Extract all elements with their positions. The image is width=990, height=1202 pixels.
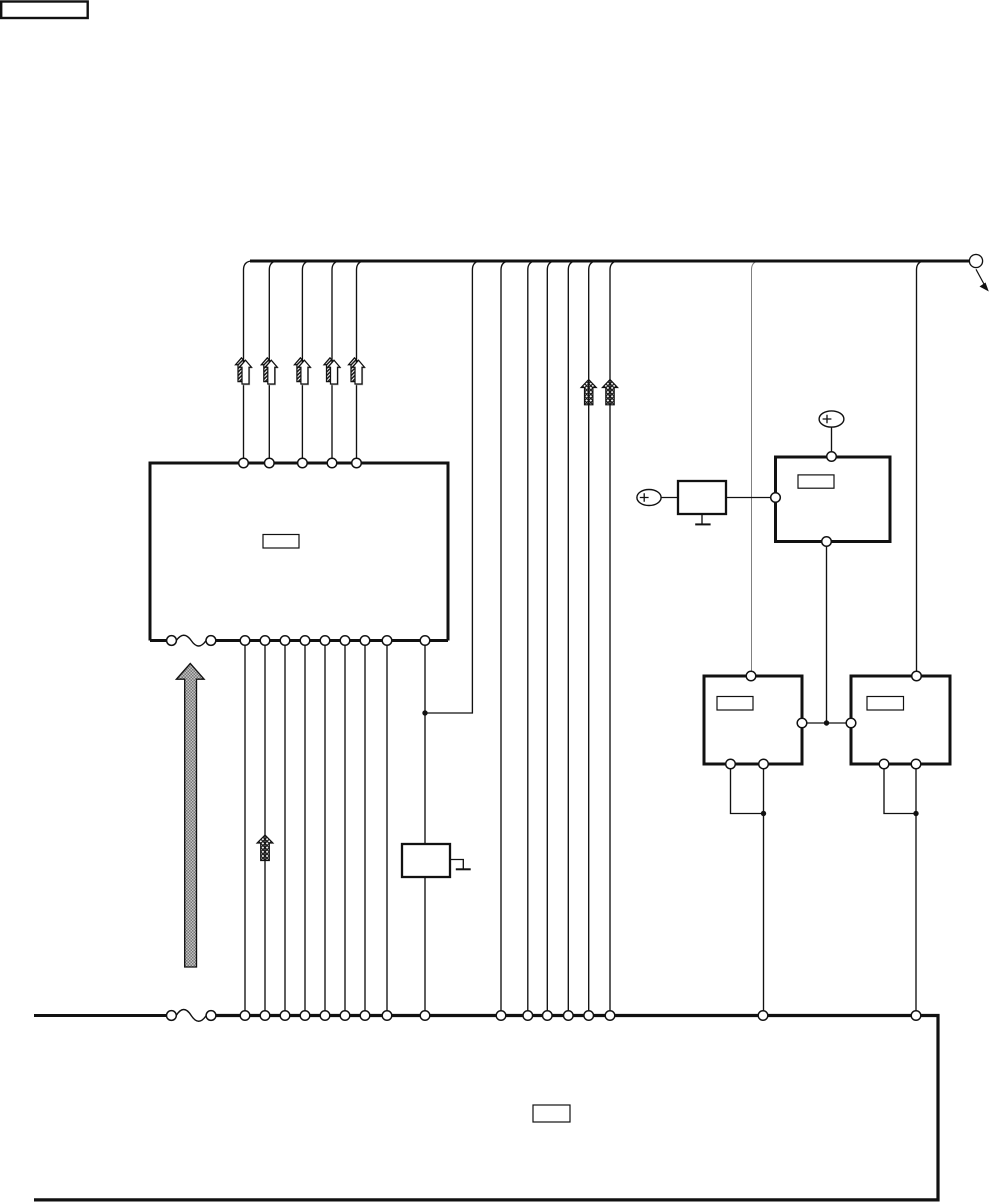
wire P1 to box F [661,497,678,499]
big gray hatched arrow [176,664,204,968]
hatched double arrow on wire A5 [349,358,361,382]
wire drop C3 [547,261,556,1016]
wire B9 (through box D) [424,641,426,1016]
gray wire drop to box G [752,261,761,676]
bus end arrow [976,269,985,285]
ground at box D [450,860,463,869]
big box label rect [263,535,299,549]
box G [704,676,802,764]
small dense arrow on wire C5 [581,380,596,405]
small dense arrow on wire C6 [602,380,617,405]
bottom box label rect [533,1105,570,1122]
wire B5 [324,641,326,1016]
wire B7 [364,641,366,1016]
wire drop to box H [917,261,926,676]
junction A dot [422,710,427,715]
bottom bus left segment [34,1014,167,1017]
box E label rect [798,475,834,488]
wire drop A1 [244,261,253,463]
wire box E to junction B [826,546,828,723]
box E [776,457,891,542]
wire under H step [884,769,916,814]
big box IC left: edges [150,463,448,641]
box H bottom pin 1 [879,759,889,769]
box H top pin [912,671,922,681]
box H label rect [867,697,904,711]
box G label rect [717,697,753,711]
wire B2 [264,641,266,1016]
wire drop A5 [357,261,366,463]
wire drop A2 [269,261,278,463]
hatched double arrow on wire A2 [261,358,273,382]
box H [851,676,950,764]
box D [402,844,450,877]
box E top pin [827,452,837,462]
big box bottom edge segments [150,639,448,642]
box G top pin [746,671,756,681]
box G bottom pin 1 [726,759,736,769]
big box bottom squiggle pin a [167,636,177,646]
wire drop A4 [332,261,341,463]
bottom bus squiggle pin a [167,1011,177,1021]
wire under G to bus [763,769,765,1016]
wire B4 [304,641,306,1016]
wire drop C2 [528,261,537,1016]
wire B8 [386,641,388,1016]
big box bottom pins row [240,636,430,646]
wire drop C1 [501,261,510,1016]
box H left pin [846,718,856,728]
wire P2 to box E [831,427,833,452]
wire under H to bus [915,769,917,1016]
box F [678,481,726,514]
wire B1 [244,641,246,1016]
wire drop C5 [589,261,598,1016]
hatched double arrow on wire A3 [294,358,306,382]
page label box top-left [1,2,88,19]
wire box F to box E [726,497,771,499]
hatched double arrow on wire A1 [236,358,248,382]
big box top pin 5 [352,458,362,468]
box H bottom pin 2 [911,759,921,769]
wire B6 [344,641,346,1016]
small dense arrow on wire B2 [257,835,273,861]
wire G-H link [807,722,846,724]
plus ellipse P2 [819,411,844,427]
plus ellipse P1 [637,490,661,506]
big box top pin 3 [298,458,308,468]
box E bottom pin [822,537,832,547]
big box bottom squiggle pin b [206,636,216,646]
bottom bus pins row [240,1011,921,1021]
bottom bus main + right edge + bottom edge [34,1016,938,1200]
big box top pin 1 [239,458,249,468]
junction C dot [761,811,766,816]
box G right pin [797,718,807,728]
box G bottom pin 2 [759,759,769,769]
big box top pin 4 [327,458,337,468]
box E left pin [771,493,781,503]
wire drop C0 (to junction A) [427,261,481,713]
ground at box F [701,514,703,524]
wire drop C6 [610,261,619,1016]
wire drop C4 [568,261,577,1016]
wire B3 [284,641,286,1016]
junction B dot [824,720,829,725]
bottom bus squiggle [176,1010,206,1022]
hatched double arrow on wire A4 [324,358,336,382]
wire under G step [731,769,764,814]
bus end circle [969,254,982,267]
wire drop A3 [302,261,311,463]
bottom bus squiggle pin b [206,1011,216,1021]
top bus [250,260,969,263]
junction D dot [913,811,918,816]
big box top pin 2 [265,458,275,468]
big box bottom-edge squiggle [176,635,206,646]
